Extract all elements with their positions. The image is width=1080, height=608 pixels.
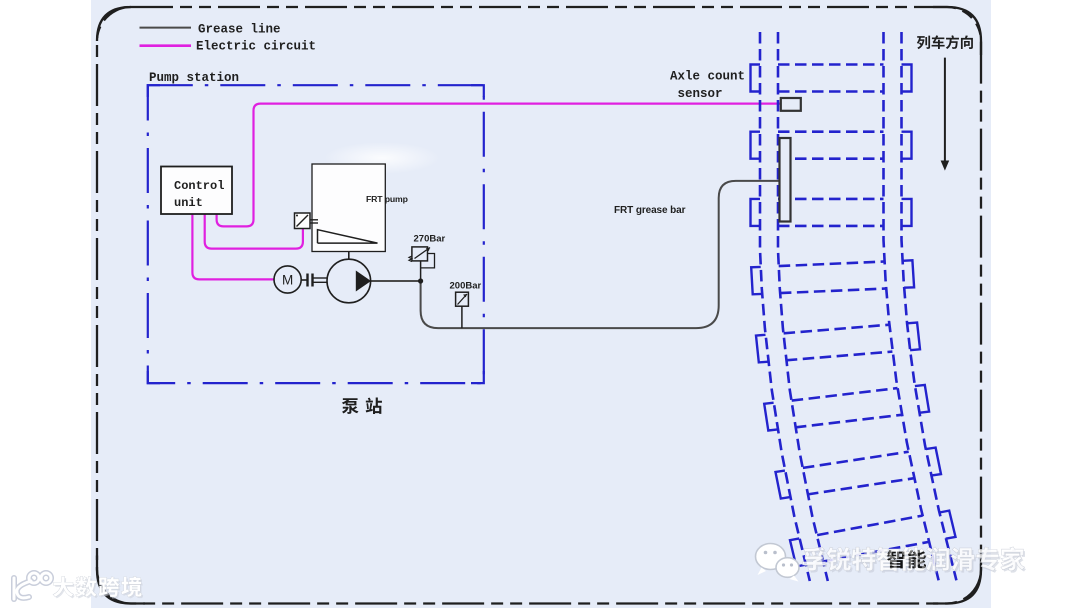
railway track group — [751, 32, 957, 581]
wechat icon watermark — [756, 544, 800, 582]
control unit box — [161, 167, 232, 215]
train direction arrow — [944, 58, 946, 162]
FRT pump box — [312, 164, 385, 252]
rail clip right sleeper 7 — [926, 448, 941, 476]
svg-text:FRT grease bar: FRT grease bar — [614, 205, 686, 216]
relief valve pilot loop — [421, 254, 435, 268]
watermark text 大数跨境 — [53, 577, 73, 597]
pump station dash-dot boundary box — [148, 85, 484, 383]
bottom-left logo — [14, 573, 51, 599]
rail clip right sleeper 2 — [902, 132, 912, 159]
relief valve 270Bar — [412, 247, 428, 261]
sleeper 5 — [784, 325, 890, 334]
sleeper 6 — [792, 388, 898, 401]
wire: control unit to axle count sensor — [217, 104, 781, 227]
left rail outer line — [760, 32, 810, 581]
pump triangle — [356, 271, 371, 292]
suction line from reservoir to pump — [348, 252, 350, 260]
junction node dot — [418, 278, 423, 283]
pressure switch stem — [461, 306, 463, 328]
rail clip right sleeper 6 — [915, 385, 929, 413]
soft light patch — [0, 0, 1, 1]
level switch connection lines — [307, 219, 318, 221]
sleeper 1 — [778, 63, 884, 66]
rail clip right sleeper 8 — [939, 511, 955, 539]
right rail outer line — [902, 32, 957, 580]
svg-text:M: M — [282, 272, 293, 287]
pump circle — [327, 259, 371, 303]
right rail inner line — [884, 32, 939, 580]
rail clip left sleeper 5 — [756, 335, 768, 363]
reservoir level indicator — [318, 230, 378, 243]
pressure switch 200Bar — [456, 292, 469, 306]
grease line: junction down and right to grease bar — [421, 181, 780, 328]
train direction label 列车方向 — [917, 36, 930, 50]
shaft coupling — [301, 279, 307, 281]
rail clip left sleeper 2 — [751, 132, 761, 159]
watermark text 孚锐特智能润滑专家 — [803, 547, 826, 570]
sleeper 2 — [778, 130, 884, 133]
rail clip right sleeper 1 — [902, 65, 912, 92]
pump station box corner ticks — [148, 85, 484, 383]
svg-text:Axle count: Axle count — [670, 69, 745, 83]
motor M circle — [274, 266, 301, 293]
watermark text 大数跨境 shadow — [55, 578, 75, 598]
svg-text:200Bar: 200Bar — [450, 280, 482, 291]
rail clip left sleeper 6 — [764, 403, 778, 431]
svg-text:270Bar: 270Bar — [414, 234, 446, 245]
rail clip left sleeper 1 — [751, 65, 761, 92]
axle count sensor box — [781, 98, 801, 111]
legend grease line sample — [140, 27, 192, 29]
svg-text:Pump station: Pump station — [149, 71, 239, 85]
relief valve spring — [409, 256, 412, 262]
wire: control unit to motor M — [192, 214, 274, 279]
wire: control unit to level switch — [205, 214, 303, 249]
sleeper 4 — [779, 262, 885, 267]
rail clip left sleeper 8 — [790, 538, 806, 566]
watermark text 孚锐特智能润滑专家 shadow — [804, 549, 827, 572]
svg-text:Electric circuit: Electric circuit — [196, 40, 316, 54]
white blend over dark 智能 — [877, 547, 899, 571]
legend electric circuit sample — [140, 44, 192, 47]
svg-text:unit: unit — [174, 196, 203, 210]
pump station chinese label 泵站 — [342, 398, 359, 414]
rail clip right sleeper 5 — [907, 323, 920, 351]
rail clip left sleeper 4 — [751, 267, 762, 294]
rail clip left sleeper 3 — [751, 199, 761, 226]
dark overlay text 智能 — [887, 550, 904, 568]
rail clip left sleeper 7 — [776, 471, 791, 499]
grease bar — [780, 138, 791, 222]
level switch symbol — [295, 213, 311, 229]
border corner arcs — [97, 7, 131, 41]
svg-text:FRT pump: FRT pump — [366, 194, 408, 204]
sleeper 3 — [778, 198, 884, 201]
svg-text:Control: Control — [174, 179, 224, 193]
left rail inner line — [778, 32, 828, 581]
sleeper 7 — [803, 452, 909, 468]
sleeper 8 — [817, 516, 922, 536]
grease line: pump outlet to junction — [371, 280, 421, 282]
relief valve drain to junction — [420, 261, 422, 281]
svg-text:Grease line: Grease line — [198, 23, 281, 37]
svg-text:sensor: sensor — [678, 87, 723, 101]
rail clip right sleeper 4 — [902, 260, 914, 287]
rail clip right sleeper 3 — [902, 199, 912, 226]
